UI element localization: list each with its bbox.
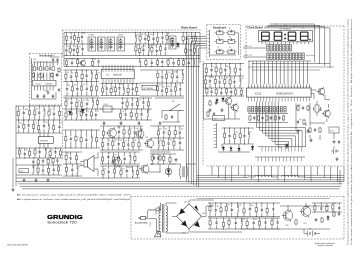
svg-text:LA1236: LA1236 (46, 82, 53, 85)
resistor (205, 64, 207, 77)
Clock Board label (247, 26, 263, 30)
capacitor (261, 202, 263, 217)
resistor (215, 88, 217, 96)
resistor R308 (333, 211, 335, 217)
svg-text:2n2: 2n2 (273, 218, 276, 220)
resistor R100 (297, 105, 299, 111)
resistor R101 (307, 105, 309, 111)
text transformer (150, 222, 152, 227)
inductor (32, 164, 36, 175)
inductor (45, 147, 49, 158)
capacitor (107, 138, 111, 150)
transistor Q202 (140, 164, 150, 175)
capacitor (85, 108, 89, 120)
resistor array RN2 (267, 53, 304, 60)
svg-text:Displ-Comm: Displ-Comm (306, 55, 315, 57)
switch S2 (226, 28, 237, 35)
resistor/capacitor row above IC101 (33, 62, 54, 71)
svg-text:S2: S2 (229, 28, 231, 30)
svg-text:10k: 10k (73, 59, 76, 61)
resistor (17, 106, 21, 120)
bridge rectifier GR1 (172, 200, 206, 234)
capacitor (272, 202, 274, 217)
switch S1 (215, 28, 226, 35)
svg-text:4k7: 4k7 (149, 45, 152, 47)
wire psu rail3 (280, 203, 330, 211)
text audio transistors (117, 127, 154, 166)
resistor (226, 88, 228, 96)
inductor (141, 126, 142, 138)
trimmer capacitors C102 C103 (50, 55, 60, 65)
svg-text:22n: 22n (184, 58, 187, 60)
svg-text:4n7: 4n7 (137, 45, 140, 47)
capacitor (235, 217, 237, 229)
resistor (66, 59, 71, 68)
inductor (139, 58, 141, 67)
wire tuner vertical (64, 32, 200, 66)
wire audio links (148, 152, 170, 173)
resistor/capacitor row below IC100 (249, 115, 285, 121)
resistor (65, 97, 69, 109)
svg-text:Radio Board: Radio Board (181, 25, 197, 29)
svg-text:4n7: 4n7 (46, 148, 49, 150)
capacitor C111 (333, 140, 336, 144)
svg-text:4n7: 4n7 (94, 59, 97, 61)
resistor (29, 148, 31, 158)
svg-text:10n: 10n (20, 148, 23, 150)
resistor (243, 202, 245, 216)
transformer T200 (179, 164, 187, 179)
capacitor (118, 138, 123, 150)
capacitor (107, 152, 111, 165)
resistor (215, 63, 217, 76)
svg-text:100n: 100n (211, 77, 215, 79)
resistor (123, 125, 125, 138)
resistor (77, 58, 79, 67)
wire rails (312, 203, 342, 212)
mains cord (146, 206, 161, 232)
resistor (114, 84, 116, 97)
resistor (114, 166, 118, 178)
svg-text:KS88C0604XXX: KS88C0604XXX (276, 93, 293, 95)
diode D104 (230, 146, 233, 152)
svg-text:D601: D601 (184, 202, 188, 204)
resistor R66 (209, 100, 211, 106)
svg-text:All capacitance values are ind: All capacitance values are indicated in … (17, 198, 132, 201)
IF transformer T2 (98, 37, 106, 51)
svg-text:CF455: CF455 (104, 104, 109, 106)
resistor (57, 165, 61, 175)
resistor (47, 157, 52, 165)
svg-text:3n3: 3n3 (122, 168, 125, 170)
resistor (130, 109, 132, 120)
transistor Q201 (144, 138, 154, 149)
inductor (194, 59, 195, 67)
capacitor (70, 70, 74, 82)
resistor (53, 120, 55, 133)
svg-text:2n2: 2n2 (181, 128, 184, 130)
mains plug P1 (135, 216, 148, 224)
svg-text:4k7: 4k7 (26, 150, 29, 152)
box connector (213, 116, 225, 121)
capacitor (243, 127, 245, 144)
wire connector row y157 (255, 157, 305, 162)
resistor R68 (207, 111, 209, 117)
switch S5 (215, 47, 226, 54)
svg-text:100k: 100k (68, 59, 72, 61)
wire rails (150, 154, 176, 164)
diode D1 (176, 42, 180, 48)
resistor (225, 203, 230, 217)
capacitor (188, 59, 193, 67)
resistor (96, 98, 98, 109)
capacitor (43, 120, 48, 133)
svg-text:TA8164P: TA8164P (113, 74, 122, 77)
resistor (48, 105, 52, 120)
wire rails (208, 218, 280, 229)
inductor L301 (282, 175, 307, 177)
svg-text:56k: 56k (124, 141, 127, 143)
resistor (229, 75, 233, 88)
ic IC2 TA7061 (142, 85, 157, 90)
svg-text:68: 68 (19, 109, 21, 111)
ic IC200 pins (40, 130, 48, 148)
svg-text:X702: X702 (330, 131, 334, 133)
ic IC101 LA1236 (33, 80, 57, 86)
wire to transformer (170, 163, 196, 165)
resistor (148, 32, 153, 45)
capacitor (23, 106, 29, 121)
resistor (80, 129, 82, 148)
svg-text:10k: 10k (134, 140, 137, 142)
svg-text:Key Board: Key Board (213, 25, 226, 29)
wire keyboard links (210, 33, 239, 55)
svg-text:33k: 33k (226, 77, 229, 79)
capacitor (179, 82, 181, 96)
resistor (65, 70, 70, 82)
capacitor (69, 152, 71, 164)
svg-text:100k: 100k (25, 109, 29, 111)
svg-text:15k: 15k (78, 166, 81, 168)
resistor (147, 98, 149, 109)
svg-text:Subject to alteration: Subject to alteration (317, 244, 333, 247)
text right margin line 2 (350, 19, 353, 245)
wire bus lower (197, 198, 330, 200)
resistor (171, 69, 178, 83)
capacitor (253, 218, 258, 230)
ground clock right (309, 138, 338, 161)
box RTC module (329, 127, 339, 133)
capacitor (85, 130, 87, 149)
wire rails (16, 148, 62, 175)
resistor (90, 109, 92, 120)
capacitor (54, 147, 59, 158)
svg-text:L101: L101 (33, 59, 37, 61)
svg-text:IC101: IC101 (36, 83, 41, 85)
resistor (77, 32, 79, 44)
resistor (102, 138, 104, 151)
capacitor (132, 83, 134, 96)
resistor (96, 82, 98, 97)
svg-text:T301: T301 (303, 223, 307, 225)
resistor (165, 83, 170, 96)
wire kb left (203, 64, 205, 121)
resistor (326, 203, 328, 212)
capacitor (95, 108, 100, 120)
wire clock horiz y62 (248, 60, 311, 62)
IF transformer T4 (117, 37, 125, 51)
resistor (139, 32, 144, 44)
capacitor (24, 148, 29, 159)
resistor (156, 59, 158, 67)
svg-text:22n: 22n (56, 148, 59, 150)
wire bus drop right (340, 166, 344, 184)
svg-text:100k: 100k (114, 139, 118, 141)
svg-text:3n3: 3n3 (75, 46, 78, 48)
wire connector row y147 (258, 147, 306, 152)
resistor (157, 125, 161, 138)
capacitor (209, 75, 215, 88)
inductor (237, 202, 241, 217)
capacitor (151, 59, 153, 68)
capacitor (18, 119, 23, 133)
inductor L300 (248, 175, 278, 177)
capacitor (186, 32, 191, 44)
resistor (332, 202, 337, 212)
resistor (120, 109, 125, 120)
wire clock right links (306, 123, 334, 148)
resistor (239, 127, 241, 144)
svg-text:56k: 56k (138, 168, 141, 170)
svg-text:R12: R12 (236, 132, 239, 134)
resistor (234, 64, 236, 77)
resistor (52, 158, 54, 166)
ic IC100 bottom pins (249, 97, 310, 101)
capacitor (230, 88, 232, 97)
wire transformer leads (156, 203, 189, 236)
resistor (224, 75, 229, 88)
capacitor (144, 32, 149, 44)
capacitor C107 (58, 88, 60, 92)
inductor (182, 69, 184, 83)
svg-text:R12: R12 (239, 205, 242, 207)
wire rails (64, 70, 100, 96)
svg-text:15k: 15k (334, 203, 337, 205)
resistor (163, 153, 165, 164)
resistor (102, 126, 104, 139)
svg-text:CN1: CN1 (214, 118, 217, 120)
inductor (135, 32, 139, 44)
capacitor (249, 203, 254, 217)
resistor (136, 83, 138, 96)
svg-text:68: 68 (231, 78, 233, 80)
capacitor C305 (338, 212, 340, 216)
capacitor (86, 81, 88, 96)
IF transformer T3 (107, 37, 115, 51)
diode D102 (222, 146, 225, 152)
capacitor (76, 81, 78, 97)
resistor (136, 109, 138, 121)
resistor (195, 32, 197, 44)
ic IC101 bottom pins (35, 86, 54, 91)
resistor (314, 203, 316, 213)
diode D302 (327, 215, 330, 221)
resistor (167, 58, 172, 67)
svg-text:S5: S5 (218, 47, 220, 49)
svg-text:3n3: 3n3 (78, 47, 81, 49)
svg-text:56k: 56k (141, 34, 144, 36)
battery BAT1 9V (304, 229, 318, 237)
svg-text:1k: 1k (87, 111, 89, 113)
diode D103 (238, 147, 241, 153)
svg-text:4n7: 4n7 (138, 99, 141, 101)
capacitor C104 (56, 73, 58, 77)
diode D21 (81, 108, 84, 114)
ground clock (296, 129, 309, 133)
capacitor (66, 82, 71, 97)
resistor R230 (159, 155, 161, 161)
wire displ links (243, 48, 266, 57)
wire rails (64, 98, 153, 120)
capacitor (134, 126, 140, 138)
resistor (65, 151, 69, 164)
resistor (96, 70, 101, 82)
resistor (102, 152, 104, 165)
capacitor (71, 58, 76, 67)
resistor (65, 163, 67, 176)
ic IC100 top pins (249, 84, 310, 88)
ground symbols below IC101 (36, 94, 55, 98)
capacitor (53, 164, 55, 175)
svg-text:1k: 1k (36, 148, 38, 150)
svg-text:1n: 1n (109, 140, 111, 142)
svg-text:100k: 100k (242, 219, 246, 221)
svg-text:47k: 47k (136, 35, 139, 37)
capacitor (157, 153, 159, 164)
resistor (23, 119, 25, 133)
resistor (266, 203, 268, 217)
resistor (75, 152, 77, 164)
ic IC100 pin numbers (248, 86, 310, 87)
wire rails (204, 64, 245, 97)
resistor (80, 109, 85, 121)
svg-text:455kHz: 455kHz (118, 35, 123, 37)
capacitor (70, 130, 72, 149)
svg-text:15k: 15k (114, 155, 117, 157)
resistor (66, 32, 68, 44)
inductor (123, 83, 125, 96)
resistor (128, 126, 132, 138)
wire kb bottom (204, 105, 240, 119)
svg-text:T602: T602 (145, 137, 149, 139)
transistor Q101 (322, 109, 330, 118)
Ant Board label (39, 54, 52, 58)
wire bottom bus (16, 175, 344, 189)
led LED1 (165, 165, 171, 177)
capacitor (320, 202, 322, 212)
resistor (182, 32, 184, 45)
resistor (166, 32, 170, 45)
text ant values (33, 59, 48, 93)
inductor (132, 166, 133, 178)
wire rails (16, 106, 62, 133)
svg-text:1n: 1n (115, 167, 117, 169)
capacitor (210, 87, 212, 96)
svg-text:47k: 47k (83, 33, 86, 35)
text displ170 a (244, 46, 252, 48)
capacitor (163, 126, 168, 138)
resistor (235, 88, 237, 96)
resistor (33, 120, 38, 133)
battery clock backup (331, 148, 339, 154)
svg-text:T601: T601 (117, 127, 121, 129)
resistor (246, 218, 248, 229)
transistor Q11 (230, 103, 238, 112)
capacitor C110 (314, 128, 316, 132)
resistor (71, 81, 76, 97)
wire clock low links (218, 144, 250, 152)
switch S3 (215, 37, 226, 44)
capacitor C304 (315, 218, 318, 222)
display DISP100 outline (259, 31, 313, 42)
svg-text:220: 220 (169, 139, 172, 141)
text psu labels (285, 223, 307, 227)
Ant Board enclosure (dashed) (29, 53, 61, 105)
Radio Board enclosure (dashed) (63, 30, 202, 160)
capacitor C112 (338, 140, 340, 144)
inductor (192, 32, 196, 44)
wire bus bundle radio-right (186, 37, 206, 188)
text displ170 b (244, 55, 252, 57)
capacitor (106, 83, 108, 96)
capacitor (167, 138, 172, 151)
capacitor (53, 105, 55, 120)
svg-text:56k: 56k (226, 66, 229, 68)
transistor Q204 (111, 156, 121, 167)
resistor (126, 98, 128, 110)
svg-text:22n: 22n (120, 84, 123, 86)
resistor (49, 148, 54, 158)
svg-text:56k: 56k (158, 84, 161, 86)
capacitor (126, 166, 133, 178)
resistor (127, 84, 129, 97)
capacitor (97, 59, 99, 67)
wire array to IC100 (249, 61, 308, 84)
svg-text:R12: R12 (241, 78, 244, 80)
display dp (309, 39, 310, 40)
connector pins clock (214, 123, 217, 148)
ic IC1 pin numbers (103, 71, 134, 72)
svg-text:1n: 1n (109, 153, 111, 155)
svg-text:22n: 22n (51, 150, 54, 152)
ground kb (208, 108, 223, 112)
inductor (91, 70, 92, 82)
resistor (117, 152, 119, 164)
capacitor (81, 44, 83, 56)
svg-text:This product and circuit docum: This product and circuit documents are s… (347, 19, 350, 245)
svg-text:R12: R12 (153, 45, 156, 47)
diode D20 (68, 110, 71, 116)
svg-text:720/3 040 5600 (0998): 720/3 040 5600 (0998) (7, 245, 28, 247)
wire left frame (13, 105, 16, 187)
resistor (214, 76, 216, 88)
resistor R307 (321, 217, 323, 223)
IF transformer T1 (88, 37, 96, 51)
ic IC200 TDA7052A (38, 137, 53, 144)
svg-text:470: 470 (190, 59, 193, 61)
text displ comm (306, 55, 315, 57)
resistor array RN3 (248, 107, 286, 113)
